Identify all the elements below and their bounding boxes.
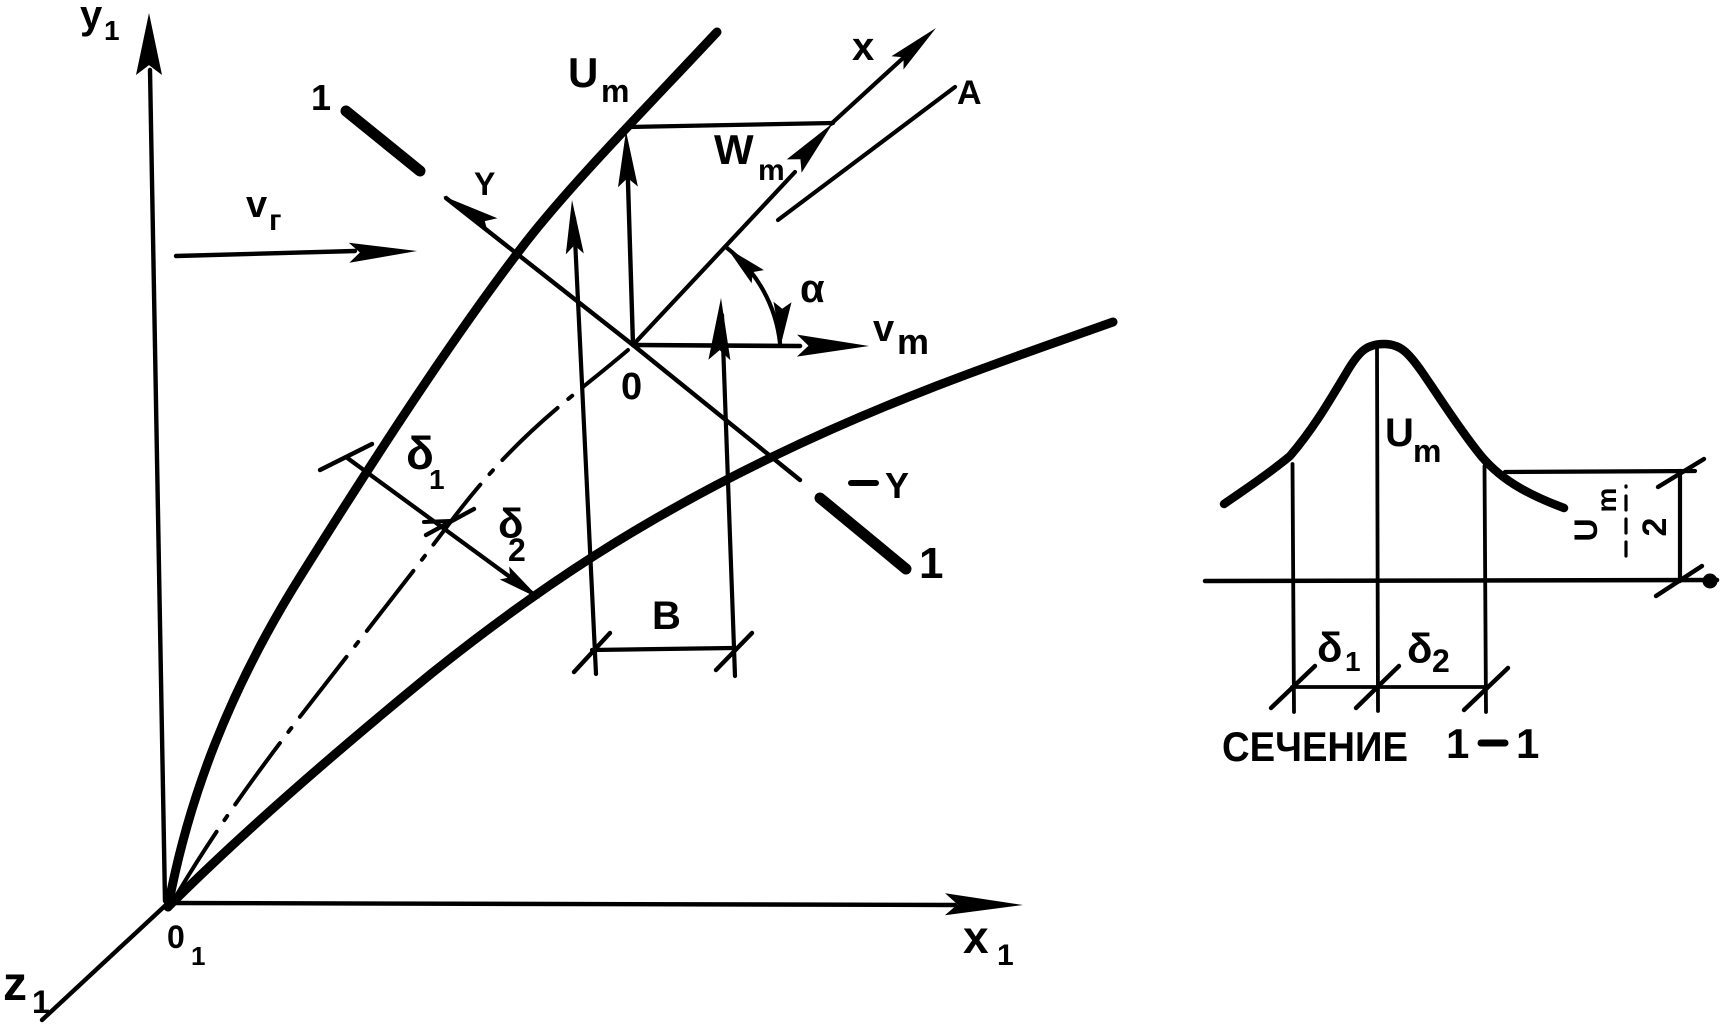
width B dimension line [592, 648, 733, 650]
svg-text:1: 1 [429, 464, 445, 495]
center vertical (U_m ordinate) [1377, 348, 1378, 711]
svg-text:W: W [714, 126, 754, 173]
svg-text:2: 2 [508, 532, 526, 568]
svg-text:Y: Y [474, 166, 495, 202]
B tick left [574, 633, 610, 672]
svg-text:1: 1 [32, 984, 50, 1020]
svg-text:2: 2 [1636, 518, 1674, 537]
x axis of jet (local) [831, 38, 925, 124]
left jet-width boundary line with arrow [574, 218, 596, 674]
svg-text:m: m [1591, 488, 1622, 513]
svg-text:1: 1 [1446, 720, 1469, 767]
thickness dimension line d1-d2 [346, 457, 536, 596]
jet axis dash-dot centerline [176, 350, 628, 896]
lower jet boundary curve [168, 322, 1113, 907]
tick middle [1356, 666, 1399, 708]
svg-text:m: m [601, 73, 629, 109]
end dot [1703, 574, 1718, 589]
svg-text:δ: δ [1407, 625, 1432, 672]
W_m resultant vector [633, 172, 795, 345]
crossflow velocity arrow v_g [176, 251, 355, 256]
svg-text:0: 0 [167, 919, 185, 955]
rotated fraction U_m/2 [1568, 486, 1674, 556]
arrowhead at lower boundary [500, 567, 540, 599]
svg-text:г: г [269, 204, 282, 237]
y1 axis [150, 70, 165, 901]
svg-text:U: U [1385, 411, 1414, 455]
svg-text:1: 1 [1345, 646, 1361, 677]
svg-text:Y: Y [885, 465, 909, 506]
profile width dimension line [1292, 685, 1486, 689]
parallelogram top side [629, 123, 833, 127]
tick bottom [1656, 566, 1702, 596]
v_m vector from O [633, 345, 800, 346]
svg-text:δ: δ [1317, 624, 1342, 671]
left half-width vertical [1293, 464, 1295, 712]
profile base line [1205, 580, 1717, 581]
angle alpha arc [727, 248, 780, 343]
svg-text:A: A [957, 74, 982, 112]
section end stroke top [346, 111, 420, 171]
U_m/2 level line [1505, 471, 1695, 472]
upper jet boundary curve [168, 32, 717, 907]
svg-text:1: 1 [104, 15, 120, 46]
Y arrowhead [443, 196, 497, 234]
svg-text:x: x [963, 911, 989, 963]
label -Y [851, 480, 876, 486]
svg-text:1: 1 [311, 77, 331, 118]
tick at upper boundary [320, 444, 372, 470]
x1 axis [168, 903, 955, 905]
B tick right [716, 633, 752, 670]
section line 1-1 (Y axis through O) [446, 198, 633, 345]
svg-text:z: z [3, 958, 27, 1011]
svg-text:v: v [873, 308, 894, 350]
jet axis line A [778, 87, 955, 220]
svg-text:α: α [800, 267, 825, 311]
tick at centerline [426, 509, 474, 535]
svg-text:m: m [758, 154, 785, 187]
svg-text:v: v [246, 184, 267, 226]
svg-text:B: B [652, 594, 681, 638]
svg-text:1: 1 [191, 941, 205, 971]
velocity profile bell curve [1224, 344, 1564, 508]
svg-text:m: m [897, 321, 929, 362]
svg-text:m: m [1413, 433, 1441, 469]
section end stroke bottom [820, 498, 906, 569]
tick top [1658, 459, 1704, 487]
svg-text:СЕЧЕНИЕ: СЕЧЕНИЕ [1222, 723, 1408, 770]
svg-text:1: 1 [997, 939, 1014, 972]
svg-text:1: 1 [919, 539, 943, 588]
svg-text:U: U [1568, 518, 1604, 541]
z1 axis [42, 903, 168, 1020]
svg-text:1: 1 [1516, 720, 1539, 767]
svg-text:x: x [852, 25, 874, 69]
svg-text:2: 2 [1432, 643, 1450, 679]
tick right [1464, 668, 1508, 710]
tick left [1271, 666, 1315, 708]
svg-text:U: U [568, 49, 598, 96]
right half-width vertical [1485, 466, 1487, 712]
svg-text:y: y [80, 0, 103, 37]
U_m/2 dimension vertical [1678, 471, 1682, 581]
U_m vector from O [627, 150, 633, 345]
right jet-width boundary line with arrow [722, 315, 735, 676]
svg-text:0: 0 [621, 366, 642, 408]
